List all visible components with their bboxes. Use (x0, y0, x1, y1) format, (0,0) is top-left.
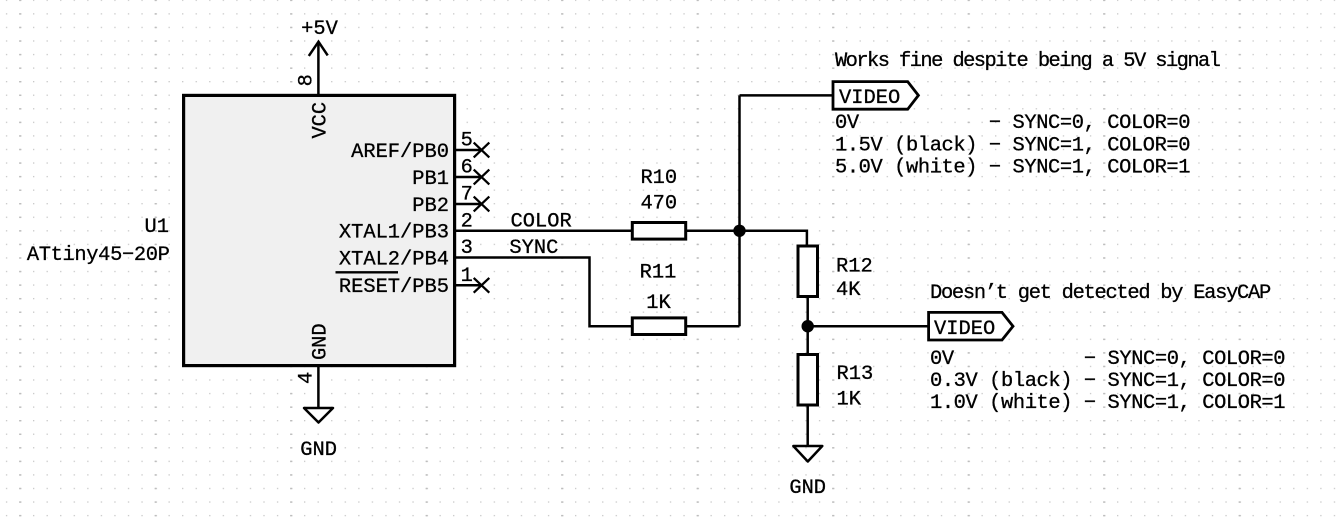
svg-text:R10: R10 (640, 167, 677, 190)
svg-text:7: 7 (461, 184, 473, 207)
global label VIDEO (bottom) (929, 312, 1013, 340)
pin 4 GND (296, 323, 333, 408)
svg-text:RESET/PB5: RESET/PB5 (339, 276, 449, 299)
ground symbol below R13 (789, 446, 826, 500)
svg-text:XTAL2/PB4: XTAL2/PB4 (339, 248, 449, 271)
svg-text:VIDEO: VIDEO (839, 87, 900, 110)
wire junction 2 to VIDEO flag 2 (808, 325, 929, 328)
svg-text:0V − SYNC=0, COLOR=0: 0V − SYNC=0, COLOR=0 (930, 348, 1285, 371)
svg-text:0.3V (black) − SYNC=1, COLOR=0: 0.3V (black) − SYNC=1, COLOR=0 (930, 370, 1285, 393)
wire junction to R12 (740, 231, 807, 246)
pin 6 PB1 (412, 157, 481, 191)
IC U1 body (ATtiny45) (184, 95, 455, 365)
svg-text:4K: 4K (836, 279, 861, 302)
resistor R12 (798, 246, 873, 302)
vertical wire (738, 95, 741, 326)
svg-text:1K: 1K (646, 292, 671, 315)
no-connect X pin 1 (474, 278, 490, 293)
svg-text:XTAL1/PB3: XTAL1/PB3 (339, 222, 449, 245)
wire R13 to ground (806, 405, 809, 446)
svg-text:PB1: PB1 (412, 168, 449, 191)
svg-text:5.0V (white) − SYNC=1, COLOR=1: 5.0V (white) − SYNC=1, COLOR=1 (835, 157, 1190, 180)
ground symbol below U1 (300, 408, 337, 462)
junction node at R10 output (733, 225, 745, 237)
wire to VIDEO flag 1 (740, 94, 834, 97)
global label VIDEO (top) (833, 82, 918, 110)
resistor R10 (632, 167, 685, 239)
power flag +5V (301, 18, 338, 95)
wire R11 to vertical bus (686, 325, 740, 328)
resistor R11 (632, 262, 685, 335)
svg-text:Doesn’t get detected by EasyCA: Doesn’t get detected by EasyCAP (930, 282, 1271, 305)
svg-text:R13: R13 (837, 363, 874, 386)
pin 3 XTAL2/PB4 (339, 237, 473, 271)
svg-text:4: 4 (296, 372, 319, 384)
svg-text:1.5V (black) − SYNC=1, COLOR=0: 1.5V (black) − SYNC=1, COLOR=0 (835, 135, 1190, 158)
svg-text:U1: U1 (145, 216, 169, 239)
svg-text:GND: GND (789, 477, 826, 500)
svg-text:0V − SYNC=0, COLOR=0: 0V − SYNC=0, COLOR=0 (835, 112, 1190, 135)
wire R10 to junction (686, 230, 740, 233)
svg-text:1K: 1K (837, 388, 862, 411)
pin 2 XTAL1/PB3 (339, 211, 473, 245)
svg-text:8: 8 (296, 74, 319, 86)
pin 7 PB2 (412, 184, 481, 218)
wire COLOR net from pin 2 (455, 230, 632, 233)
svg-text:GND: GND (300, 439, 337, 462)
svg-text:R12: R12 (836, 256, 873, 279)
svg-text:Works fine despite being a 5V: Works fine despite being a 5V signal (835, 50, 1221, 73)
svg-text:ATtiny45−20P: ATtiny45−20P (27, 244, 170, 267)
pin 1 RESET/PB5 (336, 265, 482, 299)
no-connect X pin 7 (474, 197, 490, 212)
svg-text:1: 1 (461, 265, 473, 288)
no-connect X pin 5 (474, 143, 490, 158)
svg-text:COLOR: COLOR (511, 210, 572, 233)
resistor R13 (798, 355, 873, 412)
svg-text:GND: GND (309, 323, 332, 360)
pin 8 VCC (296, 74, 333, 138)
svg-text:6: 6 (461, 157, 473, 180)
svg-text:VIDEO: VIDEO (934, 318, 995, 341)
wire R12 to R13 (806, 297, 809, 355)
svg-text:SYNC: SYNC (509, 237, 558, 260)
annotation text block 1 (835, 50, 1221, 180)
pin 5 AREF/PB0 (351, 130, 481, 164)
annotation text block 2 (930, 282, 1285, 415)
svg-text:VCC: VCC (309, 102, 332, 139)
svg-text:+5V: +5V (301, 18, 338, 41)
wire SYNC net from pin 3 (455, 258, 632, 327)
no-connect X pin 6 (474, 170, 490, 185)
svg-text:5: 5 (461, 130, 473, 153)
junction node 2 (802, 320, 814, 332)
svg-text:470: 470 (640, 192, 677, 215)
svg-text:1.0V (white) − SYNC=1, COLOR=1: 1.0V (white) − SYNC=1, COLOR=1 (930, 392, 1285, 415)
svg-text:PB2: PB2 (412, 195, 449, 218)
svg-text:AREF/PB0: AREF/PB0 (351, 141, 449, 164)
svg-text:R11: R11 (640, 262, 677, 285)
